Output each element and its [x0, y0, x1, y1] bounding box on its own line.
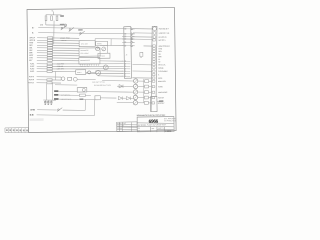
note text: [94, 84, 112, 87]
svg-text:KEY-SW IN: KEY-SW IN: [159, 37, 168, 39]
wire: [45, 84, 47, 100]
wire: [59, 90, 78, 92]
ic U2 microcontroller: [79, 48, 100, 56]
svg-text:X: X: [158, 74, 160, 76]
svg-text:APP: APP: [151, 127, 154, 130]
cell text: [138, 130, 140, 132]
J2 pin marks: [122, 28, 131, 77]
svg-text:EEPROM 93C: EEPROM 93C: [80, 60, 91, 62]
wire: [133, 32, 152, 34]
net label: [54, 98, 59, 100]
net label: [30, 109, 34, 111]
op-amp U7 node: [86, 71, 96, 74]
wire: [93, 100, 95, 116]
svg-text:ARM PWM AUX: ARM PWM AUX: [159, 45, 171, 48]
svg-text:SPD0: SPD0: [158, 78, 162, 80]
transistor Q4 with base resistor: [133, 95, 151, 99]
label: [159, 100, 164, 101]
capacitor C3: [50, 100, 52, 104]
svg-text:FLD ENABLE: FLD ENABLE: [158, 70, 168, 73]
wire: [98, 75, 123, 77]
switch SW1: [60, 24, 66, 30]
svg-text:POT LO: POT LO: [28, 82, 34, 84]
svg-text:2 5 CHG: 2 5 CHG: [117, 128, 122, 130]
svg-text:B-36: B-36: [30, 115, 34, 117]
input row SEAT: label, wire, resistor: [29, 54, 79, 57]
wire: [110, 39, 112, 46]
input row REV: label, wire, resistor: [29, 44, 79, 47]
J3 signal labels: [158, 27, 171, 104]
transistor Q6: [96, 47, 100, 51]
title small text: [164, 117, 175, 120]
wire rail: [51, 83, 53, 100]
ic U9: [95, 96, 101, 100]
wire: [133, 28, 152, 30]
revision text: [117, 122, 126, 125]
label text: [61, 99, 72, 101]
capacitor C1: [44, 100, 46, 104]
wire: [106, 45, 108, 53]
svg-text:SPD LIM: SPD LIM: [57, 66, 64, 68]
wire: [132, 70, 151, 72]
svg-text:6966: 6966: [149, 119, 159, 124]
wire: [45, 20, 47, 25]
wire: [63, 109, 86, 111]
svg-text:J2: J2: [126, 54, 128, 56]
switch SW4: [57, 108, 62, 112]
diode D1: [118, 96, 125, 99]
resistor R3: [56, 16, 58, 21]
wire: [131, 97, 134, 99]
svg-text:LOGIC PWR: LOGIC PWR: [60, 38, 70, 40]
ic U3 driver: [79, 57, 100, 64]
resistor R1: [45, 16, 47, 21]
wire: [133, 36, 152, 38]
svg-text:LAMP-DRIVE: LAMP-DRIVE: [158, 91, 168, 94]
wire: [37, 114, 95, 117]
input row SPD2 B: label, wire, resistor: [29, 39, 79, 42]
svg-text:ACC PED: ACC PED: [57, 62, 65, 65]
wire: [102, 80, 133, 82]
net label: [54, 94, 58, 96]
wire: [96, 71, 124, 73]
diode D2: [126, 97, 132, 100]
switch SW3: [78, 29, 84, 35]
wire: [77, 78, 95, 80]
input row AUX3: [30, 67, 123, 70]
svg-text:E2 DRIVER FAULT DIAG: E2 DRIVER FAULT DIAG: [94, 84, 112, 87]
input row SPD1 A: label, wire, resistor: [29, 36, 79, 39]
input row KEY: label, wire, resistor: [29, 59, 79, 62]
ic U5: [98, 53, 110, 58]
connector J2 body: [124, 27, 132, 79]
input row CHG: label, wire, resistor: [29, 57, 79, 60]
svg-text:B+36: B+36: [30, 109, 34, 111]
capacitor C2: [47, 100, 49, 104]
resistor R2: [51, 16, 53, 21]
wire: [117, 101, 133, 103]
wire: [55, 71, 57, 80]
label text: [61, 94, 71, 97]
svg-text:D 6966: D 6966: [165, 131, 171, 133]
net label: [32, 27, 35, 29]
node VCC stub: [51, 10, 54, 14]
wire: [53, 21, 55, 45]
sensor symbol: [73, 77, 77, 81]
input row AUX4: [30, 70, 76, 73]
small box: [68, 77, 72, 80]
title text line: [137, 114, 166, 117]
drawing number 6966: [149, 119, 159, 124]
svg-text:uP BUS: uP BUS: [61, 40, 66, 42]
wire: [58, 94, 90, 96]
wire: [100, 44, 124, 46]
svg-text:WDOG: WDOG: [97, 43, 102, 45]
transistor Q3 with base resistor: [133, 90, 151, 94]
wire: [157, 100, 164, 102]
switch SW2: [69, 27, 74, 31]
relay RL1 body: [150, 97, 157, 112]
wire: [59, 99, 95, 100]
svg-text:DR: DR: [138, 128, 140, 130]
svg-text:RUN SIG 36-A: RUN SIG 36-A: [159, 27, 170, 30]
net label: [54, 90, 58, 92]
lamp LP1: [64, 24, 66, 26]
cell text: [158, 128, 164, 130]
revision table: [117, 122, 138, 132]
wire: [86, 72, 124, 74]
input row AUX1: [30, 62, 123, 65]
cell text: [138, 128, 140, 130]
svg-text:KSI: KSI: [40, 25, 44, 27]
title bottom cells: [150, 127, 173, 133]
wire: [144, 45, 152, 47]
drawing border frame: [27, 8, 176, 133]
J3 pin contacts: [152, 27, 156, 104]
title small text: [164, 119, 176, 122]
U3 pin ticks: [80, 64, 98, 66]
svg-text:1 2 3 4 5 6 7 8 9: 1 2 3 4 5 6 7 8 9: [80, 66, 90, 68]
note text: [92, 81, 105, 83]
node label PWR: [40, 25, 44, 27]
part number text: [140, 57, 142, 59]
driver U10 box: [77, 88, 87, 93]
input row: [28, 82, 61, 85]
diode D3: [119, 85, 123, 88]
svg-text:EM MODEL PLANT 36V GROUP ASSY: EM MODEL PLANT 36V GROUP ASSY: [138, 123, 167, 126]
resistor R4 value: [60, 15, 64, 16]
wire: [117, 85, 133, 87]
cell text: [151, 127, 154, 130]
margin reference grid: [5, 128, 29, 133]
svg-text:AUX-DR: AUX-DR: [158, 96, 165, 99]
transistor Q1 with base resistor: [133, 79, 151, 83]
svg-text:OSC 16M: OSC 16M: [81, 43, 88, 45]
wire bus: [46, 14, 62, 16]
wire bus: [43, 99, 56, 101]
svg-text:MC68HC05: MC68HC05: [80, 50, 88, 52]
net name text: [61, 40, 66, 42]
svg-text:BAT 36V +: BAT 36V +: [159, 39, 166, 42]
input row: [29, 76, 61, 78]
svg-text:POT W: POT W: [29, 79, 35, 81]
connector J3 body: [151, 26, 157, 111]
wire: [95, 38, 152, 41]
ic U6: [76, 70, 86, 75]
svg-text:CUR LIMIT SET R22: CUR LIMIT SET R22: [92, 81, 105, 83]
wire: [38, 33, 124, 34]
wire: [38, 28, 124, 29]
svg-text:CK: CK: [138, 130, 140, 132]
transistor Q2 with base resistor: [133, 84, 151, 88]
input row AUX2: [30, 65, 123, 68]
svg-text:HORN RLY 1-B: HORN RLY 1-B: [159, 33, 170, 35]
svg-text:MN-C CTL: MN-C CTL: [158, 64, 165, 66]
input row BRK: label, wire, resistor: [29, 52, 79, 55]
net label: [32, 32, 34, 34]
net name text: [60, 38, 70, 40]
wire: [132, 77, 151, 79]
sheet number: [165, 131, 171, 133]
transistor Q7: [102, 47, 106, 51]
wire: [100, 60, 124, 62]
wire: [142, 79, 144, 103]
title row text: [138, 123, 167, 126]
J2 plug contacts: [131, 28, 135, 47]
wire: [87, 91, 134, 94]
svg-text:1 2-4 NOTE: 1 2-4 NOTE: [117, 125, 124, 127]
wire: [84, 99, 86, 110]
wire: [46, 24, 64, 26]
net label: [30, 115, 34, 117]
ic U1: [79, 40, 95, 46]
revision text: [117, 128, 122, 130]
svg-text:SPARE-2: SPARE-2: [158, 102, 165, 105]
svg-text:SPARE: SPARE: [158, 67, 164, 70]
svg-text:HORN: HORN: [158, 86, 163, 88]
svg-text:CN: CN: [140, 57, 142, 59]
svg-text:SHEET 1: SHEET 1: [158, 128, 164, 130]
transistor Q5 with base resistor: [133, 101, 151, 105]
title block grid: [117, 117, 174, 132]
svg-text:B-: B-: [32, 32, 34, 34]
svg-text:AUX4: AUX4: [30, 70, 34, 73]
svg-text:CPU LOGIC: CPU LOGIC: [80, 53, 89, 55]
ic U4: [96, 41, 108, 45]
wire: [37, 109, 57, 111]
connector J2 label: [126, 54, 128, 56]
U3 pin numbers: [80, 66, 90, 68]
meter symbol M1: [103, 65, 108, 70]
svg-text:KEY: KEY: [29, 60, 33, 62]
svg-text:A2: A2: [158, 60, 160, 63]
input row SB2: label, wire, resistor: [29, 49, 79, 52]
revision text: [117, 125, 124, 127]
svg-text:CRP SPD: CRP SPD: [57, 68, 65, 70]
wire: [55, 84, 77, 86]
input row SB1: label, wire, resistor: [29, 47, 79, 50]
svg-text:MAIN-CON: MAIN-CON: [158, 80, 167, 83]
small box: [140, 52, 143, 56]
input row FWD: label, wire, resistor: [29, 42, 79, 45]
svg-text:POT HI: POT HI: [29, 76, 35, 78]
wire: [100, 97, 116, 99]
sensor symbol: [61, 77, 65, 81]
input row: [29, 79, 61, 82]
meter symbol M2: [96, 70, 101, 75]
wire: [133, 64, 152, 66]
faint stamp: [30, 118, 44, 121]
wire: [94, 39, 96, 41]
svg-text:AMP A: AMP A: [77, 71, 81, 74]
svg-text:B+: B+: [32, 27, 35, 29]
